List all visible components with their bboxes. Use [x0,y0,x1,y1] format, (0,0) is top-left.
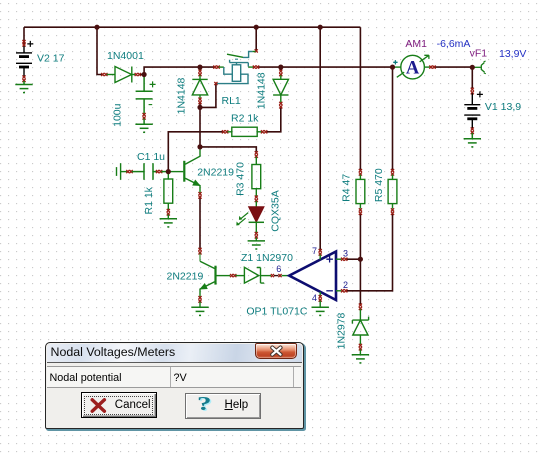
diode D3 1N4148 right [273,70,288,109]
svg-text:AM1: AM1 [405,38,427,50]
wire 1N4148a bottom to relay coil bottom node [200,84,216,107]
junction on top rail above relay switch [254,25,259,30]
svg-text:13,9V: 13,9V [499,48,526,60]
wire R2 right lead up to 1N4148b cathode [266,108,281,132]
svg-text:V2 17: V2 17 [37,53,65,65]
svg-text:1N2978: 1N2978 [336,312,348,349]
junction node vF1 / V1 [470,65,475,70]
ground below LED [248,241,265,249]
wire top rail from V2 to corner above op-amp net [24,26,360,28]
junction node ammeter plus / R5 [390,65,395,70]
wire ammeter to vF1 node and V1 battery top [435,67,472,88]
wire op-amp pin3 to node junction [346,258,360,260]
ground below 100u [135,124,152,132]
wire 1N4148b top lead from relay row [280,67,282,70]
svg-text:7: 7 [312,246,317,256]
junction node 1N4001 cathode / 100u [142,72,147,77]
svg-text:3: 3 [343,248,348,258]
svg-text:1N4001: 1N4001 [107,50,144,62]
svg-text:RL1: RL1 [222,95,241,107]
wire collector bus x=200 from node to Q1 collector junction [199,107,201,146]
svg-text:4: 4 [312,293,317,303]
junction node 1N4148a anode on relay row [197,65,202,70]
LED CQX35A [236,207,264,241]
svg-text:1N4148: 1N4148 [176,77,188,114]
junction on top rail above op-amp pin 7 [318,25,323,30]
junction node Q1 collector / R3 [197,144,202,149]
svg-text:CQX35A: CQX35A [270,190,282,231]
svg-text:2: 2 [343,280,348,290]
wire 1N4001 cathode to node C junction [140,74,145,76]
svg-text:Z1 1N2970: Z1 1N2970 [241,252,293,264]
svg-text:V1 13,9: V1 13,9 [485,101,521,113]
svg-text:R4 47: R4 47 [341,174,353,202]
ammeter AM1 [393,55,436,79]
wire node C riser to relay row y=67 [144,67,214,74]
svg-text:-6,6mA: -6,6mA [437,38,471,50]
ground below V2 [15,85,32,93]
battery V1 [464,88,483,139]
resistor R3 470 [252,151,261,207]
wire base feedback row y=131.8 to R2 left [168,132,222,172]
svg-text:R5 470: R5 470 [373,168,385,202]
ground below Q2 [191,307,208,315]
ground below op-amp pin 4 [312,307,329,315]
wire Q1 emitter down to Q2 collector [199,198,201,249]
wire junction x=320 down to op-amp pin 7 [319,27,321,249]
battery V2 [16,40,33,84]
svg-text:A: A [406,59,420,79]
wire junction x=256 down to relay switch [255,27,257,50]
transistor Q1 2N2219 [168,149,201,198]
svg-text:100u: 100u [112,103,124,127]
ground below 1N2978 [352,355,369,363]
svg-text:2N2219: 2N2219 [167,271,204,283]
resistor R2 1k [222,127,267,136]
svg-text:OP1 TL071C: OP1 TL071C [246,305,308,317]
wire R5 branch from ammeter junction down through R5 to op-amp pin 2 [346,67,392,291]
diode D2 1N4148 left [192,67,207,104]
resistor R1 1k [164,172,173,219]
junction on top rail above 1N4001 [94,25,99,30]
dialog close button [255,343,297,359]
dialog title text [51,345,176,359]
zener 1N2978 [352,304,368,355]
resistor R4 47 [356,169,365,215]
svg-text:1N4148: 1N4148 [256,72,268,109]
dialog Nodal Voltages/Meters [45,342,305,429]
ground below V1 [464,139,481,147]
button Cancel [81,392,157,418]
wire corner x=360 down through R4 to pin3 node and zener 1N2978 [359,27,361,304]
capacitor C1 1u [132,163,169,180]
ground below R1 [160,219,177,227]
resistor R5 470 [388,169,397,215]
voltage pin vF1 [474,61,486,74]
dialog title bar [47,344,303,363]
button Help [185,393,261,419]
wire V2 top lead [23,27,25,46]
svg-text:C1 1u: C1 1u [137,151,165,163]
junction node Q1 base / C1 / R1 [166,169,171,174]
svg-text:vF1: vF1 [470,48,488,60]
svg-text:R1 1k: R1 1k [143,186,155,214]
capacitor C2 100u electrolytic [136,75,156,124]
wire Q1 collector junction to R3 top [200,147,256,152]
relay RL1 [213,49,259,85]
transistor Q2 2N2219 [198,248,230,308]
junction node 1N4148b anode on relay row [278,65,283,70]
dialog grid row: Nodal potential / ?V [47,366,302,388]
junction node op-amp pin3 / R4 / 1N2978 [358,257,363,262]
svg-text:R3 470: R3 470 [235,162,247,196]
svg-text:2N2219: 2N2219 [197,167,234,179]
junction node 1N4148a cathode / relay coil [197,105,202,110]
svg-text:6: 6 [276,264,281,274]
wire from junction x=97 down to 1N4001 row [97,27,102,74]
svg-text:R2 1k: R2 1k [231,112,259,124]
input port [117,163,133,180]
wire relay row y=67 from relay right terminal to ammeter junction [258,66,392,68]
op-amp U1 OP1 TL071C [289,249,347,307]
diode D1 1N4001 [101,67,141,83]
zener Z1 1N2970 [230,267,289,283]
